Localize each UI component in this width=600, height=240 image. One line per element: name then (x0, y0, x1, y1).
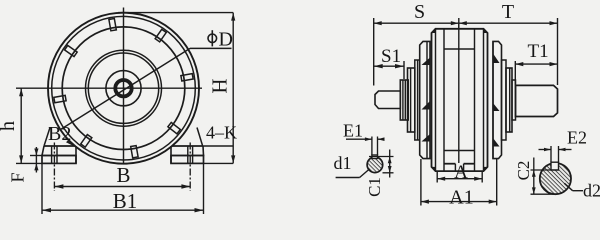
second outer circle (52, 16, 196, 160)
svg-text:T1: T1 (528, 41, 549, 62)
dimension E1 (346, 137, 385, 156)
svg-text:F: F (8, 172, 28, 182)
left foot bolt hole (51, 146, 53, 163)
input flange (420, 41, 430, 158)
dimension C1 (369, 150, 394, 178)
hub circle (106, 71, 141, 106)
dimension S1 (374, 61, 404, 79)
drum center vertical line (458, 23, 460, 163)
vent slot 10 deg (181, 74, 193, 81)
dimension F line (34, 147, 38, 173)
vent slot 322 deg (168, 122, 180, 133)
dimension T1 (515, 61, 557, 85)
right foot centerline (189, 143, 191, 192)
dimension S/T (374, 18, 558, 86)
pad top extension left for F (30, 155, 42, 157)
dimension A (437, 171, 482, 182)
svg-text:4–K: 4–K (206, 123, 237, 143)
svg-text:d2: d2 (583, 181, 600, 201)
vent slot 235 deg (81, 135, 92, 148)
vent slot 100 deg (109, 19, 116, 31)
svg-text:E1: E1 (343, 121, 363, 141)
output face plate (502, 60, 507, 140)
svg-text:B1: B1 (113, 189, 138, 213)
text phiD (208, 34, 217, 43)
svg-text:E2: E2 (567, 128, 587, 148)
dimension h line (19, 88, 23, 163)
input collar (400, 80, 408, 120)
svg-text:D: D (219, 29, 233, 51)
inner circle pair a (86, 50, 162, 126)
dimension H line (231, 13, 235, 164)
svg-text:h: h (0, 121, 19, 131)
d2 shaft section (540, 162, 571, 194)
diameter diagonal line (61, 48, 191, 129)
svg-text:A1: A1 (449, 187, 473, 209)
svg-text:d1: d1 (334, 153, 352, 173)
output step B (506, 68, 512, 132)
svg-text:S1: S1 (381, 46, 401, 67)
flange ribs right (493, 54, 500, 64)
drum (432, 29, 488, 171)
vent slot 145 deg (65, 45, 78, 56)
flange ribs left (422, 58, 431, 66)
dimension E2 (539, 146, 572, 162)
right foot top extension to H line (203, 145, 233, 147)
vent slots on ring (54, 19, 193, 158)
vent slot 280 deg (131, 146, 138, 158)
top tangent extension line (118, 12, 233, 14)
slot-ring circle (62, 27, 185, 150)
drum interior horizontals (444, 48, 475, 50)
phiD leader underline (190, 47, 232, 49)
input face plate (415, 60, 420, 140)
vent slot 190 deg (54, 95, 66, 102)
svg-text:S: S (414, 1, 425, 23)
right foot gusset (197, 128, 203, 146)
d1 shaft section (367, 155, 383, 173)
left foot centerline (53, 143, 55, 192)
vertical centerline (123, 8, 125, 165)
vent slot 55 deg (155, 29, 166, 42)
svg-text:C1: C1 (365, 177, 384, 197)
inner circle pair b (88, 53, 158, 123)
baseline extension left (16, 162, 42, 164)
right foot (171, 128, 204, 192)
dimension B line (54, 184, 190, 188)
dimension A1 (421, 159, 497, 206)
input step B (408, 68, 415, 132)
input shaft (375, 91, 400, 109)
output shaft (516, 85, 558, 116)
right foot bolt hole (187, 146, 189, 163)
shaft bore thick ring (115, 80, 131, 96)
dimension B1 line (42, 163, 204, 214)
svg-text:C2: C2 (514, 161, 533, 181)
left foot gusset (44, 128, 50, 147)
output collar (512, 80, 516, 120)
svg-text:H: H (208, 78, 232, 93)
B2 leader arrow (66, 140, 75, 147)
baseline extension right (204, 162, 234, 164)
svg-text:B: B (116, 163, 130, 187)
horizontal centerline (16, 87, 202, 89)
output flange (493, 41, 502, 158)
svg-text:T: T (502, 1, 514, 23)
dimension C2 (531, 158, 559, 195)
left foot (42, 128, 76, 192)
outer circle (48, 13, 199, 164)
svg-text:A: A (454, 162, 468, 183)
